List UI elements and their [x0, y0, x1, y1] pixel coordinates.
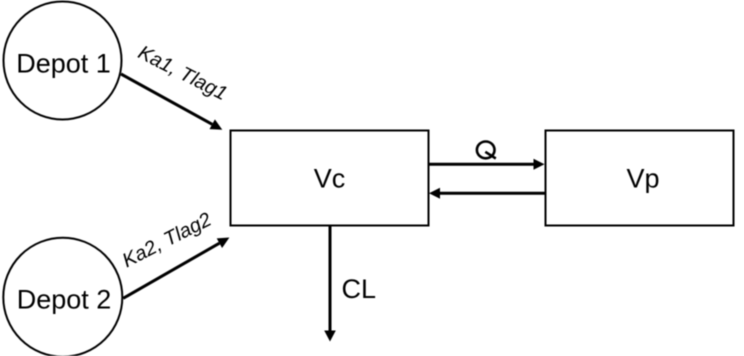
- svg-text:Depot 1: Depot 1: [16, 49, 111, 79]
- arrow Vc to Vp (top, rightward): [429, 159, 545, 170]
- svg-text:Depot 2: Depot 2: [17, 285, 112, 315]
- depot compartment Depot 1 (circle): [4, 2, 122, 120]
- label Q: [477, 142, 496, 159]
- arrow Depot 2 to Vc: [123, 238, 229, 299]
- peripheral compartment Vp (box): [546, 131, 734, 226]
- svg-text:Vc: Vc: [314, 164, 346, 194]
- svg-text:Vp: Vp: [626, 164, 659, 194]
- svg-text:CL: CL: [342, 274, 377, 304]
- arrow Vp to Vc (bottom, leftward): [429, 188, 545, 199]
- arrow Depot 1 to Vc: [121, 74, 222, 130]
- depot compartment Depot 2 (circle): [3, 238, 122, 356]
- arrow Vc elimination CL (downward): [324, 226, 336, 342]
- central compartment Vc (box): [231, 131, 429, 226]
